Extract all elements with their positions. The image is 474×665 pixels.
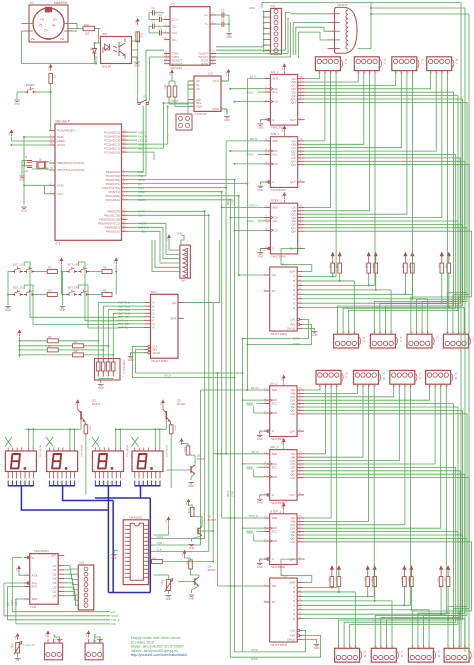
wire STEP_1 scl stub [257, 220, 264, 222]
svg-text:GND: GND [111, 556, 117, 560]
svg-text:SWITCH1: SWITCH1 [118, 304, 131, 308]
wire C5 [216, 14, 222, 16]
wire C2 [149, 19, 160, 21]
svg-text:GND: GND [314, 646, 320, 650]
ground Q7 [189, 545, 195, 551]
svg-text:SL_4: SL_4 [455, 59, 458, 65]
power +5V R4 [114, 258, 118, 265]
svg-text:GND: GND [249, 6, 255, 10]
svg-text:74HC595N: 74HC595N [271, 255, 286, 259]
svg-text:SCs: SCs [141, 230, 147, 234]
svg-text:GND: GND [134, 64, 140, 68]
power +5V STEP_2 [281, 503, 285, 510]
svg-text:SV1: SV1 [270, 4, 276, 8]
pins IC3 [188, 79, 227, 111]
svg-text:DIS: DIS [111, 622, 116, 626]
resistor R7 [47, 344, 58, 352]
svg-text:AVCC: AVCC [57, 143, 66, 147]
microcontroller IC1 MEGA8-P [55, 124, 122, 240]
svg-text:GND: GND [258, 254, 264, 258]
wire TR_2 inh to shcp [303, 635, 321, 657]
svg-text:GND: GND [189, 597, 195, 601]
power +5V IC1 [9, 130, 13, 137]
svg-text:G: G [272, 180, 274, 184]
resistor R26 [187, 507, 194, 516]
svg-text:C4: C4 [159, 26, 163, 30]
wire DIR_1 scl stub [257, 153, 264, 155]
svg-text:C10: C10 [24, 170, 29, 173]
wire TR2 bottom stcp shcp [235, 651, 306, 653]
svg-text:+5V: +5V [59, 260, 61, 264]
ground BUT shld [131, 353, 145, 356]
svg-text:SER: SER [289, 270, 295, 274]
svg-text:6N138: 6N138 [102, 65, 111, 69]
transistor Q6 BC547 digit driver [191, 465, 195, 474]
svg-text:BDT_DR: BDT_DR [68, 286, 79, 290]
ground TR_2 [314, 644, 320, 650]
svg-text:BC547: BC547 [208, 568, 217, 572]
svg-text:GND: GND [5, 308, 11, 312]
svg-text:IC3: IC3 [208, 72, 213, 76]
svg-text:SCL: SCL [272, 90, 278, 94]
resistor pair R11 R12 pullups [328, 253, 341, 274]
svg-text:R30: R30 [163, 84, 166, 89]
wire C3 [149, 25, 153, 27]
ic IC3 AT24C64 [194, 76, 221, 111]
svg-text:D: D [293, 288, 295, 292]
svg-text:STCA: STCA [164, 374, 171, 378]
connector SV2 LCD header [78, 561, 94, 611]
wire DIS2 risers [69, 429, 71, 447]
node net labels BUT inputs [118, 302, 145, 304]
svg-text:DIS4: DIS4 [130, 453, 132, 459]
svg-text:A: A [293, 275, 295, 279]
svg-text:GND: GND [98, 386, 104, 390]
svg-text:QH: QH [272, 273, 276, 277]
wire TR_1 inh to shcp [303, 324, 312, 344]
svg-text:G: G [293, 612, 295, 616]
svg-text:R11: R11 [328, 264, 331, 269]
svg-text:BC547: BC547 [197, 457, 206, 461]
svg-text:74HCT165N: 74HCT165N [270, 643, 287, 647]
svg-text:4>: 4> [52, 24, 56, 28]
svg-text:SHCP: SHCP [251, 658, 258, 661]
wire bus verticals [200, 390, 202, 545]
svg-text:BDT_DL: BDT_DL [13, 286, 24, 290]
svg-text:+5V: +5V [48, 66, 50, 70]
svg-text:R13: R13 [364, 264, 367, 269]
connector SL_1 floppy header [315, 57, 347, 75]
svg-text:R16: R16 [408, 264, 411, 269]
svg-text:PC0(ADC0): PC0(ADC0) [104, 150, 120, 154]
svg-text:H: H [293, 306, 295, 310]
power +5V Q4 [182, 551, 186, 558]
svg-text:C2: C2 [159, 13, 163, 17]
svg-text:2>: 2> [44, 29, 48, 33]
svg-text:GND: GND [188, 484, 194, 488]
ground JP2 [94, 637, 100, 639]
svg-text:PB7(XTAL2/TOSC2): PB7(XTAL2/TOSC2) [57, 168, 84, 172]
display DIS4 7-segment HDSP-H101 [130, 445, 167, 472]
svg-text:+5V: +5V [17, 568, 19, 572]
ground IC1 GND [21, 207, 27, 213]
svg-text:R2OUT: R2OUT [172, 62, 182, 66]
svg-text:BARSAC: BARSAC [138, 226, 149, 230]
svg-text:DIR 14: DIR 14 [250, 139, 258, 141]
svg-text:GND12: GND12 [247, 468, 255, 470]
power +5V EN_1 [282, 64, 286, 71]
svg-text:CLK: CLK [138, 214, 143, 218]
transistor Q3 BC547 [78, 399, 101, 425]
svg-text:C: C [293, 595, 295, 599]
wire opto out to S1 [137, 41, 139, 98]
svg-text:MEGA8-P: MEGA8-P [56, 120, 70, 124]
connector SL_13 floppy header [335, 645, 367, 662]
connector SL_8 floppy header [443, 331, 474, 348]
svg-text:C1+: C1+ [172, 18, 178, 22]
resistor R23 [189, 560, 193, 569]
connector X3 DB9 SPORT [328, 3, 358, 53]
svg-text:BUT_UL: BUT_UL [13, 263, 24, 267]
svg-text:+5V: +5V [167, 237, 169, 241]
diode D1 1N4148 [89, 44, 97, 58]
svg-text:C1-: C1- [172, 24, 177, 28]
svg-text:R23: R23 [400, 577, 403, 582]
wire DIS1 top pin stubs [7, 448, 9, 452]
ground SWITCH-4 GND [98, 385, 104, 391]
ground IC3 [226, 109, 228, 112]
ground DIR_2 gnd pin [260, 495, 264, 498]
wire mesh STEP_1 outputs [305, 71, 331, 208]
svg-text:C2-: C2- [172, 38, 177, 42]
ground EN_2 gnd pin [260, 431, 264, 434]
wire DIS4 nc cross [132, 437, 139, 447]
svg-text:+5V: +5V [17, 332, 19, 336]
wire DIS1 blue comb [7, 481, 9, 486]
wire SV1 gnd bus [263, 11, 265, 50]
svg-text:SN: SN [272, 600, 276, 604]
power +5V Q3 [75, 400, 79, 407]
wire bus SER feeds group1 [247, 78, 264, 80]
svg-text:Q2: Q2 [177, 399, 181, 403]
svg-text:<3: <3 [40, 18, 44, 22]
svg-text:SL_7: SL_7 [436, 336, 439, 342]
ic TR_2 74HCT165N [264, 574, 303, 647]
power +5V Q7 [186, 499, 190, 506]
svg-text:QH: QH [291, 412, 296, 416]
svg-text:SL_9: SL_9 [345, 372, 348, 378]
ground DIR_1 gnd pin [260, 182, 264, 185]
svg-text:SHCP: SHCP [138, 198, 146, 202]
crystal Q1 [37, 159, 46, 169]
svg-text:QH: QH [172, 301, 176, 305]
wire bus mega PD nets [128, 179, 235, 181]
ground Q6 [188, 483, 194, 489]
connector JP2 power header [85, 639, 103, 660]
svg-text:RESET: RESET [26, 83, 35, 87]
power +5V Q6 [179, 439, 183, 446]
wire DIS4 risers [154, 429, 156, 447]
svg-text:G: G [272, 429, 274, 433]
button BUT_UL [12, 263, 35, 273]
svg-text:SL_12: SL_12 [454, 372, 457, 380]
svg-text:SV2: SV2 [79, 561, 85, 565]
ic STEP_1 74HC595N [264, 199, 304, 259]
wire EN_1 scl stub [257, 91, 264, 93]
svg-text:GND: GND [57, 184, 65, 188]
svg-text:B: B [293, 279, 295, 283]
resistor R9 [73, 349, 84, 357]
svg-text:G: G [272, 493, 274, 497]
ground R22 [166, 596, 172, 602]
wire DIS4 blue comb [134, 481, 136, 486]
wire TR net to 165 chips [239, 274, 264, 276]
wire DIR_2 vcc [283, 446, 285, 450]
svg-text:220: 220 [85, 32, 90, 36]
svg-text:G: G [293, 301, 295, 305]
switch S1 [138, 95, 149, 105]
svg-text:GND: GND [224, 118, 230, 122]
svg-text:SCK: SCK [272, 462, 278, 466]
button RESET S2 [25, 83, 36, 93]
svg-text:<5: <5 [39, 24, 43, 28]
svg-text:GND: GND [166, 597, 172, 601]
power +5V Q2 [161, 400, 165, 407]
pins IC1 left [49, 128, 84, 196]
wire bus taps to chips SCK RCK group1 [230, 88, 264, 90]
wire DB9 harness [291, 13, 328, 15]
wire buttons to BUT chip nets [24, 262, 118, 317]
wire EN_2 scl stub [257, 403, 264, 405]
svg-text:RCK: RCK [272, 475, 278, 479]
power +5V IC3 [170, 70, 174, 77]
svg-text:G: G [32, 556, 34, 560]
ground TR_1 [312, 332, 318, 338]
svg-text:BC547: BC547 [92, 402, 101, 406]
wire MAX232 outputs [216, 46, 264, 48]
svg-text:SWITCH0: SWITCH0 [118, 301, 131, 305]
svg-text:GND: GND [257, 501, 263, 505]
svg-text:GND: GND [60, 308, 66, 312]
ground C6 GND [228, 31, 230, 33]
ic BUT 74HCT165N [151, 294, 179, 358]
transistor Q7 BC547 digit driver [198, 526, 202, 535]
svg-text:C2+: C2+ [172, 31, 178, 35]
svg-text:SHCP: SHCP [228, 198, 230, 205]
pins IC5 [24, 554, 64, 602]
power +5V R2 [59, 258, 63, 265]
wire BUT_UR wiring [89, 271, 102, 273]
svg-text:SER: SER [32, 597, 38, 601]
svg-text:F_PWR: F_PWR [55, 634, 57, 642]
ic TR_1 74HCT165N [264, 263, 303, 336]
svg-text:EN_2: EN_2 [270, 381, 278, 385]
wire PC0 down right [128, 151, 155, 153]
wire reset net [50, 84, 52, 131]
svg-text:PE: PE [31, 37, 35, 41]
svg-text:BC547: BC547 [177, 402, 186, 406]
svg-text:RCK: RCK [272, 539, 278, 543]
svg-text:SL_1: SL_1 [344, 59, 347, 65]
wire display anode rail left [25, 428, 81, 430]
wire MAX232 R2OUT to S1 [148, 57, 164, 102]
wire blue bottom [108, 592, 150, 594]
svg-text:AT24C64: AT24C64 [195, 112, 208, 116]
svg-text:GND: GND [14, 102, 20, 106]
svg-text:+5V: +5V [46, 633, 48, 637]
svg-text:F: F [293, 608, 295, 612]
svg-text:BUT_UR: BUT_UR [68, 263, 79, 267]
wire TR_1 shld gnd [303, 328, 315, 330]
wire mesh DIR_2 outputs [304, 387, 326, 454]
svg-text:BUT_DR: BUT_DR [118, 322, 129, 326]
connector SL_10 floppy header [354, 370, 386, 388]
svg-text:STCP: STCP [251, 649, 258, 652]
ic LCD 74HC595N [30, 554, 59, 605]
svg-text:STCP: STCP [232, 198, 234, 205]
svg-text:G: G [272, 118, 274, 122]
wire bus taps to chips SCK group2 [243, 399, 264, 401]
wire DIS3 blue comb [94, 481, 96, 486]
svg-text:SL_5: SL_5 [362, 336, 365, 342]
wire BUT QH join [184, 302, 213, 304]
svg-text:5 LCD_VO: 5 LCD_VO [23, 643, 36, 647]
wire C6 [216, 23, 222, 25]
svg-text:BUT_UR: BUT_UR [118, 315, 129, 319]
svg-text:QH: QH [291, 476, 296, 480]
svg-text:DIS1: DIS1 [3, 453, 5, 459]
power +5V UAA [166, 517, 170, 524]
ground BUT_UR GND [60, 307, 66, 313]
ground EN_1 gnd pin [260, 120, 264, 123]
svg-text:SER: SER [272, 77, 278, 81]
svg-text:GND: GND [257, 565, 263, 569]
wire bus mega PB nets [128, 210, 205, 212]
svg-text:GND: GND [258, 126, 264, 130]
svg-text:HDSP-H101: HDSP-H101 [39, 445, 41, 458]
svg-text:74HC595N: 74HC595N [270, 565, 285, 569]
svg-text:+5V: +5V [114, 260, 116, 264]
ground BUT_UL GND [5, 307, 11, 313]
svg-text:R6: R6 [48, 335, 52, 339]
wire STEP_2 vcc [283, 510, 285, 514]
svg-text:ARDSB: ARDSB [138, 222, 147, 226]
svg-text:+5V: +5V [226, 71, 228, 75]
resistor R30 R31 i2c pullups [167, 86, 171, 97]
switch SWITCH-4 DIP [95, 359, 127, 381]
wire Q2 base rail join [165, 420, 167, 430]
wire bottom nets EN STCP LCD_E DIS [12, 611, 110, 613]
capacitor C1 [152, 6, 156, 15]
svg-text:Q0: Q0 [52, 594, 56, 598]
svg-text:A0: A0 [196, 87, 200, 91]
wire BUT clk inh [133, 346, 145, 377]
svg-text:DIS: DIS [8, 602, 10, 606]
svg-text:R24: R24 [407, 577, 410, 582]
ground STEP_2 gnd pin [260, 559, 264, 562]
svg-text:RCK: RCK [32, 573, 38, 577]
connector SL_3 floppy header [392, 57, 424, 75]
pins IC1 right [98, 129, 128, 233]
transistor Q4 BC547 digit driver [195, 577, 199, 586]
ic EN_2 74HC595N [264, 381, 304, 441]
power +5V R38 [15, 634, 19, 641]
wire DIS2 blue comb [48, 481, 50, 486]
connector SL_4 floppy header [427, 57, 459, 75]
svg-text:GND: GND [226, 35, 232, 39]
resistor R2 [47, 266, 57, 274]
svg-text:SER: SER [272, 452, 278, 456]
svg-text:PE: PE [60, 37, 64, 41]
wire mesh TR_2 sense rows [303, 587, 337, 589]
svg-text:SCK: SCK [272, 149, 278, 153]
svg-text:R18: R18 [444, 264, 447, 269]
svg-text:STEP 14: STEP 14 [249, 205, 259, 207]
power +5V STEP_1 [282, 193, 286, 200]
capacitor C4 [159, 26, 163, 35]
svg-text:+5V: +5V [281, 377, 283, 381]
svg-text:R2: R2 [48, 266, 52, 270]
svg-text:STEP_1: STEP_1 [271, 199, 283, 203]
svg-text:RCK: RCK [272, 411, 278, 415]
connector X1 MAB5SH DIN [22, 1, 78, 42]
ground Q4 [189, 595, 195, 601]
svg-text:PC6(/RESET): PC6(/RESET) [57, 129, 76, 133]
svg-text:+5V: +5V [9, 132, 11, 136]
resistor R25 [183, 446, 190, 455]
svg-text:SCL: SCL [272, 153, 278, 157]
wire DIS2 nc cross [46, 437, 53, 447]
wire C1 [149, 12, 153, 14]
wire TR1 clk rows extend [243, 338, 309, 340]
wire blue segment bus D1 [21, 486, 108, 510]
svg-text:DATA: DATA [138, 210, 145, 214]
connector ISP [180, 245, 191, 282]
svg-text:RXD: RXD [138, 170, 144, 174]
svg-text:C3: C3 [152, 20, 156, 24]
wire DIR_1 vcc [283, 133, 285, 137]
wire STEP_2 scl stub [257, 531, 264, 533]
svg-text:SH/LD: SH/LD [287, 638, 295, 642]
button BUT_UR [67, 263, 90, 273]
wire IC1 gnd left [24, 136, 49, 138]
svg-text:V+: V+ [204, 13, 208, 17]
resistor R35 [136, 32, 144, 42]
svg-text:1>: 1> [53, 18, 57, 22]
wire BUT qh out [184, 240, 220, 303]
resistor pair R13 R14 pullups [364, 253, 377, 274]
wire STEP_1 vcc [283, 200, 285, 204]
svg-text:SCK: SCK [272, 87, 278, 91]
svg-text:SL_2: SL_2 [383, 59, 386, 65]
wire DIS1 risers [28, 429, 30, 447]
wire IC5 to SV2 [64, 566, 78, 569]
svg-text:PB5(SCK): PB5(SCK) [106, 230, 120, 234]
ground crystal [19, 176, 25, 182]
svg-text:Q3: Q3 [92, 399, 96, 403]
resistor pair R23 R24 pullups [400, 566, 413, 587]
svg-text:SN: SN [272, 289, 276, 293]
wire BUT inh net [136, 372, 243, 374]
connector SV1 pin header [265, 4, 282, 54]
svg-text:SCL: SCL [272, 530, 278, 534]
svg-text:QH*: QH* [51, 554, 57, 558]
ground UAA [114, 550, 118, 553]
wire bus SER feeds group2 [201, 389, 264, 391]
wire DIS3 bottom pins [94, 472, 96, 479]
wire diode taps [94, 43, 96, 44]
wire reset button left to gnd [17, 91, 25, 93]
